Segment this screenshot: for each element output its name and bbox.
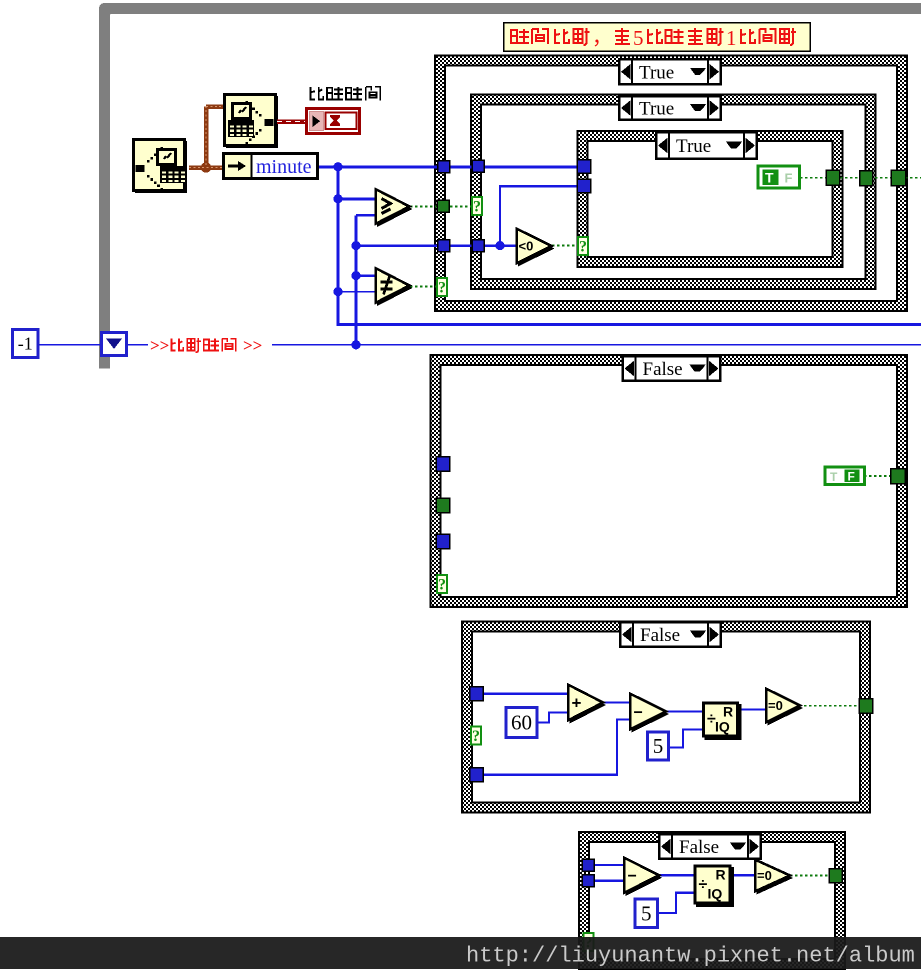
comparison node EqualZero (CS4) [766, 689, 803, 726]
boolean wire: EqualZero result to tunnel (CS5) [790, 875, 829, 877]
svg-text:False: False [640, 625, 680, 646]
boolean True constant inside CS3 [758, 166, 800, 188]
wire: Subtract output to QuotientRemainder [665, 710, 706, 712]
svg-text:False: False [679, 837, 719, 858]
node Quotient and Remainder (CS5) [695, 866, 734, 907]
CS5 case selector terminal [584, 933, 594, 951]
svg-text:?: ? [473, 199, 481, 216]
arithmetic node Subtract (CS5) [624, 858, 662, 896]
node Quotient and Remainder (CS4) [703, 703, 741, 740]
boolean wire: EqualZero result to output tunnel [799, 705, 860, 707]
svg-text:60: 60 [511, 711, 532, 735]
wire: tunnel1 to Subtract top input (CS5) [594, 864, 627, 866]
CS1 left tunnel GreaterEqual result (green) [437, 200, 449, 212]
CS2 case selector terminal [472, 197, 482, 215]
CS1 left tunnel minute (blue) [438, 161, 450, 173]
CS2 right output tunnel (green) [860, 171, 873, 186]
wire: branch to GreaterEqual top input [338, 197, 378, 200]
CS2 left tunnel comparison-time (blue) [472, 240, 484, 252]
svg-text:=0: =0 [768, 698, 783, 713]
junction dot branch GreaterEqual [333, 194, 342, 203]
CS2 left tunnel minute (blue) [472, 160, 484, 172]
wire: 5 constant to QuotientRemainder bottom input [669, 730, 705, 748]
boolean wire: True constant to output tunnels and right edge [800, 177, 921, 179]
svg-text:True: True [676, 136, 711, 157]
CS3 left tunnel 2 (blue) [577, 179, 590, 192]
CS2-False left tunnel 3 (blue) [436, 534, 449, 548]
CS2 selector label True [619, 96, 721, 120]
svg-text:，: ， [592, 27, 612, 49]
CS1 selector label True [619, 59, 721, 85]
CS3 right output tunnel (green) [826, 170, 839, 185]
wire: minute value from indicator into case structures [319, 165, 580, 168]
numeric constant -1 [13, 330, 39, 358]
wire: branch to NotEqual top input [356, 274, 378, 277]
svg-text:?: ? [438, 280, 446, 297]
junction dot on B at NotEqual branch [351, 271, 360, 280]
wire: remainder to EqualZero (CS5) [730, 874, 757, 876]
CS3 selector label True [656, 132, 757, 159]
wire: cluster brown from node1 to branch [189, 165, 222, 170]
arithmetic node Add [568, 685, 606, 724]
wire: comparison-time vertical branch B [355, 215, 358, 344]
svg-text:http://liuyunantw.pixnet.net/a: http://liuyunantw.pixnet.net/album [466, 944, 915, 969]
svg-text:−: − [634, 704, 643, 721]
case structure CS1 outer (True case) frame [435, 56, 907, 312]
brown cluster junction dot [201, 162, 211, 172]
svg-text:?: ? [438, 577, 446, 594]
case structure CS4 frame (False, arithmetic) [462, 622, 870, 813]
free label comment: 時間比對，每5分鐘送出1次訊號 [504, 23, 810, 51]
brown wire weave highlights [189, 107, 224, 168]
svg-text:5: 5 [633, 26, 644, 50]
CS1 left tunnel comparison-time (blue) [438, 240, 450, 252]
junction dot on comparison-time wire [351, 340, 360, 349]
case structure CS2 middle (True case) frame [471, 95, 876, 290]
CS5 right output tunnel (green) [829, 869, 842, 883]
junction dot on B at LessThan0 branch [351, 241, 360, 250]
boolean False constant [825, 467, 865, 485]
wire: cluster brown into node2 [206, 104, 224, 109]
comparison node NotEqual [376, 268, 413, 306]
CS2-False left tunnel 1 (blue) [436, 457, 449, 471]
svg-text:R: R [723, 704, 733, 720]
wire: tunnel2 to Subtract bottom input (CS5) [594, 880, 627, 882]
wire label >>比對時間>> (comparison time) [148, 334, 272, 355]
indicator 系統時間 time stamp terminal [307, 109, 360, 134]
numeric constant 60 [506, 708, 537, 738]
boolean wire: LessThan0 result to CS3 selector [552, 245, 578, 247]
comparison node LessThan0 [517, 229, 555, 267]
case structure CS2 False case frame [431, 355, 908, 607]
wire: tunnel2 to Subtract bottom input [484, 720, 634, 775]
svg-text:-1: -1 [18, 334, 33, 354]
svg-text:R: R [716, 867, 726, 883]
svg-text:F: F [785, 171, 793, 186]
wire: timestamp red dashed from node2 to indicator [277, 119, 306, 124]
wire: remainder to EqualZero input [740, 708, 768, 710]
svg-text:IQ: IQ [708, 886, 723, 902]
node Seconds To Date/Time (calendar-clock icon left) [134, 140, 188, 194]
comparison node EqualZero (CS5) [755, 860, 793, 895]
svg-text:True: True [639, 62, 674, 83]
wire: 60 constant to Add bottom input [538, 713, 572, 723]
boolean wire: NotEqual result to CS1 selector [410, 286, 437, 288]
svg-text:5: 5 [653, 734, 664, 758]
wire: vertical branch A of minute value [337, 167, 340, 325]
svg-text:True: True [639, 99, 674, 120]
wire: 5 constant to QuotientRemainder (CS5) [658, 893, 697, 913]
label 系統時間 (system time) [311, 87, 324, 100]
svg-text:IQ: IQ [715, 719, 730, 735]
watermark bar [0, 937, 921, 969]
svg-text:T: T [830, 470, 838, 484]
numeric constant 5 (CS5) [635, 899, 658, 928]
junction dot inner-case branch [495, 241, 504, 250]
boolean wire: GreaterEqual result to CS2 selector [410, 206, 472, 208]
svg-text:?: ? [579, 239, 587, 256]
shift register (down arrow) on loop border [102, 333, 127, 356]
CS3 left tunnel 1 (blue) [577, 160, 590, 173]
svg-text:minute: minute [256, 156, 312, 178]
CS4 case selector terminal [471, 727, 481, 745]
boolean wire: False constant to output tunnel [864, 475, 891, 477]
CS5 left tunnel 1 (blue) [582, 859, 594, 871]
wire: comparison time long wire to right edge [128, 344, 921, 346]
svg-text:F: F [848, 470, 855, 484]
svg-text:1: 1 [726, 26, 737, 50]
svg-text:=0: =0 [757, 868, 772, 883]
svg-text:<0: <0 [519, 239, 534, 254]
CS2-False right output tunnel (green) [891, 469, 905, 484]
comparison node GreaterOrEqual [376, 189, 413, 227]
CS2-False case selector terminal [437, 575, 447, 593]
CS3 case selector terminal [578, 237, 588, 255]
svg-text:+: + [572, 694, 582, 713]
CS4 left tunnel 1 (blue) [470, 687, 483, 701]
CS1 right output tunnel (green) [891, 170, 905, 185]
while loop border (grey frame, top-left corner) [99, 3, 921, 369]
CS5 left tunnel 2 (blue) [582, 875, 594, 887]
CS2-False selector label [623, 356, 721, 381]
wire: thin branch to NotEqual bottom input [338, 291, 378, 293]
CS5 selector label False [659, 834, 761, 859]
junction dot on minute wire [333, 162, 342, 171]
CS4 right output tunnel (green) [859, 699, 872, 713]
wire: minute value out of loop region (lower long wire) [338, 292, 921, 325]
svg-text:5: 5 [641, 901, 652, 925]
case structure CS5 frame (bottom False) [579, 832, 845, 969]
svg-text:÷: ÷ [699, 876, 708, 893]
svg-text:T: T [765, 170, 774, 186]
svg-text:−: − [628, 868, 637, 885]
svg-text:?: ? [472, 728, 480, 745]
junction dot NotEqual bottom branch [333, 287, 342, 296]
wire: cluster brown vertical up to node2 [204, 107, 209, 168]
svg-text:False: False [643, 359, 683, 380]
numeric constant 5 (CS4) [648, 732, 669, 760]
wire: -1 constant to shift register [39, 344, 100, 346]
CS4 left tunnel 2 (blue) [470, 768, 483, 782]
CS4 selector label False [620, 622, 721, 647]
wire: Subtract output to QuotientRemainder (CS5) [658, 874, 697, 876]
wire: branch to GreaterEqual bottom input [356, 214, 378, 217]
arithmetic node Subtract [630, 694, 669, 733]
wire: comparison-time value into case structures to LessThan0 [356, 244, 518, 246]
CS2-False left tunnel 2 (green) [436, 498, 449, 512]
wire: branch up to inner case tunnel 2 [500, 186, 580, 245]
svg-text:>>: >> [150, 336, 169, 355]
indicator minute (numeric) [224, 153, 318, 179]
wire: tunnel1 to Add top input [484, 693, 572, 695]
case structure CS3 inner (True case) frame [578, 131, 843, 267]
CS1 case selector terminal [437, 278, 447, 296]
node Get Date/Time (calendar-clock icon right) [225, 95, 279, 149]
wire: Add output to Subtract [602, 701, 634, 703]
svg-text:>>: >> [243, 336, 262, 355]
